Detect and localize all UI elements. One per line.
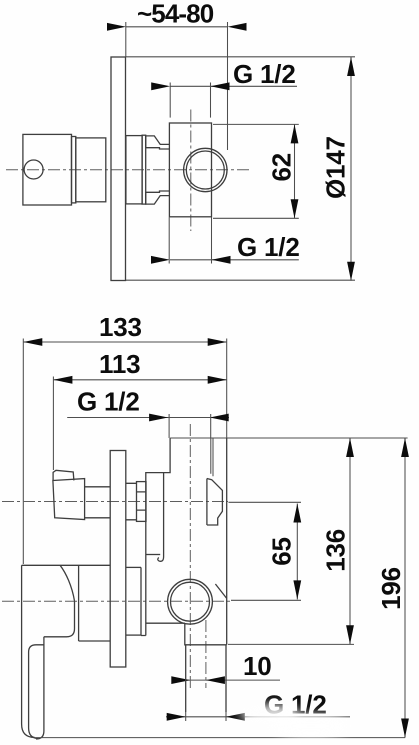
handle taper curve bbox=[60, 565, 74, 601]
handle hub top edge bbox=[22, 564, 111, 566]
plate to flange top connection bbox=[126, 566, 141, 568]
dimension G 1/2 upper-left left arrow bbox=[149, 414, 168, 422]
lower block bottom edge bbox=[146, 622, 185, 624]
dimension 196 bottom arrow bbox=[401, 719, 409, 738]
outlet pipe right edge bbox=[225, 645, 227, 712]
dimension O147 line bbox=[350, 57, 352, 281]
diverter horizontal centerline bbox=[2, 501, 228, 503]
dimension 133 right arrow bbox=[208, 338, 227, 346]
handle neck rear edge bbox=[78, 565, 80, 641]
vertical centerline top drawing bbox=[190, 110, 192, 232]
dimension 136 bottom extension line bbox=[228, 643, 354, 645]
dimension 113 right arrow bbox=[208, 376, 227, 384]
svg-text:196: 196 bbox=[376, 567, 406, 610]
diverter knob body bbox=[53, 479, 85, 520]
outlet pipe left edge bbox=[185, 645, 187, 712]
cartridge nut inner lines bbox=[137, 492, 147, 510]
cartridge nut block bbox=[137, 482, 147, 522]
dimension G 1/2 bottom-most right arrow bbox=[226, 713, 245, 721]
dimension 65 bottom arrow bbox=[293, 580, 301, 599]
main vertical axis centerline bbox=[189, 424, 191, 688]
svg-text:10: 10 bbox=[243, 651, 272, 681]
dimension 65 bottom extension line bbox=[231, 599, 301, 601]
internal vertical line with curl bbox=[163, 473, 165, 557]
plate to flange bottom connection bbox=[126, 634, 141, 636]
dimension O147 top arrow bbox=[347, 57, 355, 76]
dimension O147 bottom extension line bbox=[126, 279, 355, 281]
dimension 62 line bbox=[294, 124, 296, 218]
knob stem bbox=[76, 138, 106, 202]
dimension 196 top arrow bbox=[401, 438, 409, 457]
diverter stem bbox=[85, 487, 111, 518]
dimension 62 bottom arrow bbox=[291, 199, 299, 218]
wall plate bottom drawing bbox=[110, 451, 126, 668]
dimension 136 top arrow bbox=[346, 438, 354, 457]
dimension 133 left arrow bbox=[23, 338, 42, 346]
svg-text:62: 62 bbox=[266, 153, 296, 182]
dimension ~54-80 left arrow bbox=[107, 23, 126, 31]
dimension G 1/2 bottom right extension line bbox=[211, 218, 213, 264]
handle outer left edge bbox=[22, 565, 35, 737]
outlet horizontal centerline bbox=[2, 600, 231, 602]
dimension O147 bottom arrow bbox=[347, 262, 355, 281]
dimension G 1/2 bottom-most left arrow bbox=[167, 713, 186, 721]
dimension 133 line bbox=[23, 341, 226, 343]
dimension G 1/2 top right extension line bbox=[210, 83, 212, 118]
hex bulge diverter housing bbox=[207, 479, 223, 526]
dimension 113 left arrow bbox=[53, 376, 72, 384]
dimension O147 top extension line bbox=[126, 56, 355, 58]
svg-text:G 1/2: G 1/2 bbox=[77, 386, 140, 416]
cartridge collar right of plate bbox=[126, 483, 137, 520]
dimension 65 top extension line bbox=[229, 501, 302, 503]
top step block bbox=[146, 136, 170, 149]
curl detail bbox=[158, 557, 164, 562]
right extension line 133/113 and body back edge bbox=[226, 339, 228, 439]
svg-text:Ø147: Ø147 bbox=[321, 136, 351, 199]
outlet outer circle bbox=[168, 579, 213, 624]
svg-text:65: 65 bbox=[267, 537, 297, 566]
svg-text:~54-80: ~54-80 bbox=[137, 0, 214, 28]
dimension 10 line bbox=[173, 679, 280, 681]
pipe extension line right bbox=[225, 712, 227, 721]
handle bottom edge and 196 extension line bbox=[35, 737, 406, 739]
housing behind plate bbox=[126, 136, 142, 204]
side port inner circle bbox=[186, 151, 224, 189]
lower flange double line bbox=[141, 567, 146, 635]
dimension G 1/2 top left extension line bbox=[169, 83, 171, 118]
dimension G 1/2 upper-left right arrow bbox=[210, 414, 229, 422]
dimension ~54-80 left extension line bbox=[125, 22, 127, 57]
horizontal centerline top drawing bbox=[6, 169, 250, 171]
watermark blur 1 bbox=[240, 704, 300, 724]
dimension 133 left extension line bbox=[22, 339, 24, 565]
handle hub right edge bbox=[44, 601, 75, 637]
handle grip inner capsule bbox=[29, 645, 44, 739]
knob circle bbox=[24, 160, 43, 179]
elbow outline bbox=[185, 623, 227, 645]
lower block top edge bbox=[146, 554, 160, 556]
dimension G 1/2 top left arrow bbox=[151, 82, 170, 90]
dimension 10 right arrow bbox=[206, 676, 225, 684]
valve body top drawing bbox=[169, 123, 211, 217]
dimension 62 top arrow bbox=[291, 124, 299, 143]
dimension G 1/2 top line bbox=[170, 85, 297, 87]
dimension G 1/2 bottom-most line bbox=[166, 716, 350, 718]
dimension G 1/2 bottom left arrow bbox=[151, 256, 170, 264]
handle grip right edge bbox=[36, 637, 44, 739]
dimension G 1/2 bottom right arrow bbox=[212, 256, 231, 264]
svg-text:133: 133 bbox=[99, 312, 142, 342]
upper body block inner right edges bbox=[211, 438, 213, 476]
dimension 65 top arrow bbox=[293, 504, 301, 523]
body top edge and extension to dimensions bbox=[170, 437, 408, 439]
dimension 62 bottom extension line bbox=[213, 217, 299, 219]
watermark blur 2 bbox=[272, 714, 350, 738]
outlet pipe vertical axis centerline bbox=[205, 620, 207, 688]
dimension ~54-80 right arrow bbox=[228, 23, 247, 31]
dimension 196 line bbox=[404, 438, 406, 738]
dimension G 1/2 bottom left extension line bbox=[168, 218, 170, 264]
dimension 62 top extension line bbox=[213, 123, 299, 125]
side port outer circle bbox=[184, 148, 227, 191]
outlet inner circle bbox=[171, 582, 210, 621]
pipe extension line left bbox=[185, 712, 187, 721]
dimension G 1/2 bottom line bbox=[170, 259, 299, 261]
dimension 65 line bbox=[296, 504, 298, 600]
dimension 136 bottom arrow bbox=[346, 625, 354, 644]
knob collar bbox=[72, 137, 76, 203]
upper body block left edge bbox=[146, 438, 170, 636]
svg-text:136: 136 bbox=[320, 529, 350, 572]
body back edge bbox=[226, 438, 228, 645]
mounting flange double line bbox=[142, 135, 146, 204]
svg-text:G 1/2: G 1/2 bbox=[237, 232, 300, 262]
dimension 136 line bbox=[349, 438, 351, 644]
dimension G 1/2 upper-left line bbox=[67, 417, 229, 419]
dimension 113 line bbox=[53, 379, 226, 381]
dimension ~54-80 right extension line bbox=[227, 22, 229, 150]
dimension 113 left extension line bbox=[52, 377, 54, 471]
port extension line left bbox=[168, 414, 170, 438]
port extension line right bbox=[210, 414, 212, 438]
knob body top drawing bbox=[23, 134, 72, 205]
dimension G 1/2 top right arrow bbox=[211, 82, 230, 90]
svg-text:G 1/2: G 1/2 bbox=[233, 59, 296, 89]
diverter knob tab bbox=[53, 470, 74, 480]
dimension 10 left arrow bbox=[171, 676, 190, 684]
bottom step block bbox=[146, 191, 170, 204]
elbow chamfer line bbox=[215, 584, 226, 598]
handle neck bottom line bbox=[79, 640, 111, 642]
wall plate top drawing bbox=[111, 57, 126, 281]
svg-text:113: 113 bbox=[99, 349, 140, 379]
dimension ~54-80 line bbox=[126, 26, 228, 28]
